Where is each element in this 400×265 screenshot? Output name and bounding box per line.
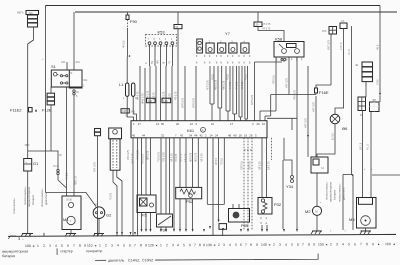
wire coil pin15 down — [133, 97, 136, 121]
svg-text:5: 5 — [291, 243, 293, 247]
wire vertical x74 bus to ignition switch S1 — [73, 12, 75, 70]
fuses F11E2 F12E — [10, 108, 52, 113]
svg-text:G1: G1 — [33, 161, 39, 166]
svg-text:ЧТЛ 0.75: ЧТЛ 0.75 — [293, 89, 296, 100]
svg-text:7: 7 — [134, 243, 136, 247]
svg-text:4: 4 — [285, 243, 287, 247]
ground bar M3 — [361, 230, 372, 232]
bus line 15 (second) — [75, 11, 397, 13]
ECU bottom pin numbers — [132, 133, 257, 137]
svg-text:+-: +- — [22, 238, 24, 241]
box c/b top right — [340, 20, 347, 29]
wire battery plus to starter bus — [28, 151, 58, 169]
svg-text:K61: K61 — [187, 128, 195, 133]
svg-text:СН 1.5: СН 1.5 — [340, 42, 343, 50]
svg-text:10: 10 — [190, 122, 194, 126]
svg-text:6: 6 — [129, 243, 131, 247]
ECU K61 — [131, 121, 267, 138]
svg-text:M1: M1 — [63, 217, 69, 222]
svg-text:28: 28 — [249, 133, 253, 137]
svg-text:24: 24 — [215, 133, 219, 137]
svg-text:3: 3 — [172, 243, 174, 247]
svg-text:ЖЧТ 0.75: ЖЧТ 0.75 — [131, 153, 134, 164]
svg-text:генератор: генератор — [86, 249, 102, 253]
svg-text:КЧТ 0.75: КЧТ 0.75 — [285, 78, 288, 88]
battery G1 — [24, 159, 39, 172]
svg-text:ЧТ 0.75: ЧТ 0.75 — [262, 28, 271, 31]
svg-text:ГЧЛ 0.75: ГЧЛ 0.75 — [157, 152, 160, 162]
svg-text:F16E: F16E — [319, 90, 329, 95]
svg-text:ЧН 0.5: ЧН 0.5 — [123, 40, 126, 48]
svg-text:ЧЛ 0.75: ЧЛ 0.75 — [200, 153, 203, 162]
svg-text:7: 7 — [245, 243, 247, 247]
wire from S box down — [330, 34, 332, 85]
pin rows under injectors — [196, 55, 251, 65]
svg-text:стартер: стартер — [60, 249, 73, 253]
svg-text:8: 8 — [199, 243, 201, 247]
svg-text:2: 2 — [105, 244, 107, 248]
svg-text:L1: L1 — [119, 82, 124, 87]
svg-text:43: 43 — [180, 133, 184, 137]
fuse holder stack top-left — [17, 11, 39, 28]
ground bar starter — [66, 233, 76, 235]
svg-text:S1: S1 — [51, 64, 57, 69]
wire stub x67 to S1 — [66, 62, 68, 70]
svg-text:ЖЛ 0.75: ЖЛ 0.75 — [189, 152, 192, 162]
svg-text:8: 8 — [366, 242, 368, 246]
svg-text:КЧТ 0.75: КЧТ 0.75 — [94, 162, 97, 172]
svg-text:ЧТ 0.75: ЧТ 0.75 — [262, 23, 271, 26]
svg-text:6: 6 — [297, 243, 299, 247]
svg-text:9: 9 — [256, 243, 258, 247]
relay K53 — [146, 30, 177, 46]
svg-text:ЧЖ 0.75: ЧЖ 0.75 — [222, 80, 225, 90]
long wire right from top — [379, 6, 381, 94]
P32 pins down — [261, 217, 268, 225]
svg-text:MEГA: MEГA — [17, 12, 24, 15]
svg-text:48: 48 — [228, 133, 232, 137]
svg-text:34: 34 — [189, 133, 193, 137]
svg-text:M2: M2 — [305, 209, 311, 214]
svg-text:ЭКР 0.5: ЭКР 0.5 — [240, 161, 243, 170]
wire labels injector bundle — [206, 79, 244, 90]
svg-text:ЧЛ 0.75: ЧЛ 0.75 — [258, 161, 261, 170]
svg-text:5: 5 — [235, 243, 237, 247]
svg-text:ГЛ 0.5: ГЛ 0.5 — [221, 158, 224, 165]
svg-text:100: 100 — [25, 244, 31, 248]
wire bus to box30 — [257, 12, 259, 22]
wire generator to ground — [98, 219, 100, 234]
current track ruler line — [8, 234, 396, 236]
svg-text:2: 2 — [43, 244, 45, 248]
svg-text:20: 20 — [176, 122, 180, 126]
svg-text:КЧТ 0.75: КЧТ 0.75 — [327, 40, 330, 50]
dashed screened cable wires — [244, 138, 252, 230]
svg-text:БРЛ 0.75: БРЛ 0.75 — [251, 94, 254, 105]
svg-text:A31: A31 — [76, 61, 81, 64]
svg-text:6: 6 — [354, 242, 356, 246]
svg-text:42: 42 — [200, 133, 204, 137]
wire S1 down to starter terminal 50 — [66, 87, 68, 196]
wire S1 to connector stack — [50, 87, 52, 93]
svg-text:6: 6 — [189, 243, 191, 247]
svg-text:10: 10 — [262, 122, 266, 126]
svg-text:4: 4 — [177, 243, 179, 247]
grid connector gb2 — [370, 99, 380, 112]
svg-text:26: 26 — [257, 122, 261, 126]
terminal triangles above ruler — [116, 226, 298, 235]
svg-text:44: 44 — [194, 133, 198, 137]
component P52 throttle pot — [176, 187, 202, 203]
svg-text:3: 3 — [336, 242, 338, 246]
long wire from bus right — [307, 66, 309, 150]
svg-text:8: 8 — [79, 244, 81, 248]
svg-text:30 50: 30 50 — [66, 199, 73, 202]
bus line 30 (top) — [46, 5, 381, 7]
svg-text:ЧБ 0.75: ЧБ 0.75 — [241, 81, 244, 90]
wires down to heater box — [363, 111, 372, 198]
ground bar generator — [94, 233, 104, 235]
svg-text:ЧН 2.5: ЧН 2.5 — [66, 172, 69, 180]
wire to generator B+ — [46, 193, 97, 207]
svg-text:45: 45 — [132, 133, 136, 137]
svg-text:полоса массы -: полоса массы - — [326, 181, 329, 200]
svg-text:ЧБ 5: ЧБ 5 — [376, 44, 379, 50]
side horizontal wires — [343, 174, 400, 177]
svg-text:III: III — [360, 114, 362, 117]
svg-text:M: M — [315, 210, 317, 214]
svg-text:Y7: Y7 — [225, 31, 231, 36]
wire box31 to bus — [177, 12, 179, 25]
injector wire bundle with merges — [210, 66, 248, 119]
track number row — [25, 242, 395, 248]
svg-text:P35: P35 — [241, 223, 249, 228]
svg-text:4: 4 — [55, 244, 57, 248]
svg-text:ГЧ: ГЧ — [169, 61, 172, 64]
svg-text:X13: X13 — [122, 109, 127, 113]
box 31 above K53 — [174, 25, 182, 29]
svg-text:7: 7 — [73, 244, 75, 248]
wire F16E down to relay box — [315, 97, 317, 157]
wire from fuse stack down to battery — [28, 27, 34, 159]
svg-text:5: 5 — [123, 243, 125, 247]
svg-text:1: 1 — [37, 244, 39, 248]
wire to fuse F16E — [316, 85, 331, 88]
svg-text:ЖЛ 0.75: ЖЛ 0.75 — [146, 150, 149, 160]
svg-text:полоса массы -: полоса массы - — [339, 183, 342, 202]
ignition lock body — [109, 128, 122, 170]
small connector boxes left of lock — [95, 129, 101, 132]
svg-text:Y34: Y34 — [286, 184, 294, 189]
svg-text:18: 18 — [239, 133, 243, 137]
wires below P34 — [161, 227, 166, 229]
wire connector down to ruler — [96, 136, 98, 236]
connector pair on K58 feed — [281, 58, 283, 60]
svg-text:БЧ 0.75: БЧ 0.75 — [136, 91, 139, 100]
svg-text:ЧТЛ 0.5: ЧТЛ 0.5 — [272, 75, 275, 84]
svg-text:140: 140 — [261, 243, 267, 247]
svg-text:батарея: батарея — [31, 194, 35, 205]
svg-text:полоса массы -: полоса массы - — [24, 186, 27, 205]
svg-text:8: 8 — [308, 243, 310, 247]
wire battery minus to ground point — [27, 171, 29, 234]
svg-text:6: 6 — [240, 243, 242, 247]
svg-text:9: 9 — [313, 243, 315, 247]
wires K58 down into ECU right — [255, 61, 285, 121]
svg-text:ЧК 0.75: ЧК 0.75 — [229, 81, 232, 90]
svg-text:1: 1 — [160, 243, 162, 247]
svg-text:батарея: батарея — [2, 254, 15, 258]
svg-text:8: 8 — [250, 243, 252, 247]
svg-text:40A: 40A — [29, 12, 34, 15]
svg-text:4Б 6: 4Б 6 — [25, 144, 31, 147]
svg-text:6: 6 — [67, 244, 69, 248]
svg-text:аккумуляторная: аккумуляторная — [2, 249, 28, 253]
svg-text:K53: K53 — [158, 30, 166, 35]
svg-text:F5: F5 — [142, 213, 147, 218]
K58 pin row — [276, 59, 303, 62]
svg-text:9: 9 — [372, 242, 374, 246]
svg-text:БЛ 0.75: БЛ 0.75 — [267, 161, 270, 170]
svg-text:32: 32 — [161, 133, 165, 137]
svg-text:точка массы: точка массы — [13, 198, 16, 214]
svg-text:ЧБЛ 1.5: ЧБЛ 1.5 — [75, 176, 78, 185]
connector pair on starter feed — [57, 169, 59, 171]
svg-text:ЧТЛ 0.75: ЧТЛ 0.75 — [141, 153, 144, 164]
svg-text:2: 2 — [330, 242, 332, 246]
ground point symbol bottom left — [9, 236, 17, 239]
svg-text:ЧГЛ 0.75: ЧГЛ 0.75 — [206, 80, 209, 90]
svg-text:A31: A31 — [61, 61, 66, 64]
svg-text:Ɵ6: Ɵ6 — [342, 126, 348, 131]
svg-text:3: 3 — [111, 244, 113, 248]
svg-text:ЗЧБ: ЗЧБ — [131, 111, 136, 114]
svg-text:146: 146 — [148, 99, 153, 103]
svg-text:батарея: батарея — [333, 189, 337, 200]
svg-text:Ч 1.5: Ч 1.5 — [348, 49, 351, 55]
svg-text:КЧБ 0.75: КЧБ 0.75 — [127, 149, 130, 160]
ECU top pin numbers — [133, 122, 266, 126]
svg-text:4: 4 — [117, 244, 119, 248]
svg-text:ЧТ 0.75: ЧТ 0.75 — [174, 91, 177, 100]
wire F90 down to coil — [126, 28, 128, 83]
svg-text:9: 9 — [145, 243, 147, 247]
svg-text:ГЛ 0.75: ГЛ 0.75 — [175, 153, 178, 162]
svg-text:1: 1 — [99, 244, 101, 248]
svg-text:Ч 0.75: Ч 0.75 — [110, 192, 113, 200]
section label battery — [2, 247, 318, 263]
svg-text:ЭКР 0.5: ЭКР 0.5 — [248, 161, 251, 170]
svg-text:F11E2: F11E2 — [10, 108, 22, 113]
svg-text:полоса массы -: полоса массы - — [41, 188, 44, 207]
svg-text:16 4: 16 4 — [53, 165, 58, 168]
motor M2 — [305, 206, 322, 215]
svg-text:17: 17 — [230, 122, 234, 126]
wire stack down — [365, 82, 367, 97]
wires lock to bottom tracks — [113, 170, 117, 236]
wire connector to starter — [73, 95, 75, 197]
wire labels above ECU left — [136, 90, 195, 108]
svg-text:14: 14 — [210, 133, 214, 137]
wire jog right of P52 — [207, 203, 224, 205]
starter M1 — [62, 196, 81, 230]
svg-text:120: 120 — [148, 243, 154, 247]
svg-text:-: - — [26, 168, 27, 171]
wire from c/b box down — [335, 29, 344, 115]
svg-text:5: 5 — [61, 244, 63, 248]
svg-text:16: 16 — [211, 122, 215, 126]
svg-text:3: 3 — [279, 243, 281, 247]
svg-text:K58: K58 — [275, 37, 283, 42]
svg-text:F90: F90 — [130, 19, 138, 24]
fuse F90 — [126, 12, 138, 28]
svg-text:2: 2 — [273, 243, 275, 247]
connector stack right — [355, 62, 373, 82]
wires below ECU going down — [133, 138, 138, 236]
svg-text:1НЗ: 1НЗ — [322, 30, 327, 33]
svg-text:4: 4 — [342, 242, 344, 246]
svg-text:19: 19 — [244, 133, 248, 137]
svg-text:Ч 0.5: Ч 0.5 — [226, 74, 229, 80]
svg-text:5: 5 — [183, 243, 185, 247]
small tag boxes on wires — [147, 98, 156, 103]
svg-text:7: 7 — [360, 242, 362, 246]
component F5 (crank sensor) — [137, 195, 156, 218]
component P35 temp sensor — [229, 209, 250, 229]
wire labels below ECU left — [127, 149, 204, 164]
svg-text:КЧЛ 0.75: КЧЛ 0.75 — [136, 149, 139, 160]
warning lamp — [330, 114, 348, 131]
svg-text:КЛ 0.5: КЛ 0.5 — [215, 157, 218, 165]
svg-text:61 0.5: 61 0.5 — [331, 133, 334, 140]
svg-text:7: 7 — [194, 243, 196, 247]
svg-text:ЧЕ: ЧЕ — [355, 64, 359, 67]
section label engine — [95, 259, 106, 261]
wire starter to ground — [70, 230, 72, 234]
wire lamp down — [317, 124, 335, 157]
svg-text:ЧБЛ 0.75: ЧБЛ 0.75 — [214, 79, 217, 90]
svg-text:130: 130 — [206, 243, 212, 247]
svg-text:КЧТ 0.75: КЧТ 0.75 — [312, 102, 315, 112]
svg-text:▲: ▲ — [34, 108, 38, 113]
svg-text:4: 4 — [229, 243, 231, 247]
svg-text:M3: M3 — [349, 217, 355, 222]
small connector box below triangle — [219, 224, 227, 230]
svg-text:С/ЧБ: С/ЧБ — [376, 79, 379, 85]
svg-text:F12E: F12E — [42, 108, 52, 113]
wires K53 contacts down — [150, 45, 173, 66]
component P34 (sensor) — [157, 214, 173, 233]
svg-text:2: 2 — [218, 243, 220, 247]
ignition switch S1 — [51, 64, 88, 88]
relay box right bottom — [311, 157, 328, 173]
svg-text:9: 9 — [84, 244, 86, 248]
svg-text:КЛ 0.75: КЛ 0.75 — [179, 153, 182, 162]
wire coil to ECU pin1 — [127, 97, 133, 121]
svg-text:БРЛ 0.75: БРЛ 0.75 — [181, 97, 184, 108]
svg-text:БЛ 0.75: БЛ 0.75 — [184, 153, 187, 162]
ignition coil L1 — [119, 82, 138, 100]
svg-text:Ч 1.5: Ч 1.5 — [366, 144, 369, 150]
feed box 30 small — [254, 22, 262, 27]
svg-text:БРЛ 0.75: БРЛ 0.75 — [192, 97, 195, 108]
svg-text:G2: G2 — [106, 213, 112, 218]
svg-text:P32: P32 — [274, 202, 282, 207]
ground bar battery — [22, 233, 33, 235]
svg-text:БЧ: БЧ — [151, 61, 154, 64]
svg-text:27: 27 — [138, 122, 142, 126]
svg-text:134: 134 — [163, 99, 168, 103]
svg-text:5: 5 — [348, 242, 350, 246]
relay K58 — [274, 37, 304, 58]
connector Y34 — [286, 176, 294, 190]
svg-text:ЖЧК 0.75: ЖЧК 0.75 — [141, 93, 144, 104]
svg-text:9: 9 — [203, 243, 205, 247]
wires into P32 — [262, 138, 267, 198]
wires into P35 — [233, 204, 239, 209]
svg-text:двигатель: двигатель — [45, 192, 48, 205]
svg-text:44: 44 — [142, 133, 146, 137]
connector pair 30 below S1 — [73, 90, 75, 92]
svg-text:8: 8 — [140, 243, 142, 247]
wire bundle K53/coil area down to ECU — [140, 66, 196, 121]
svg-text:аккумуляторная: аккумуляторная — [330, 181, 333, 202]
wire stack down through fuse area — [50, 105, 52, 151]
component P32 — [258, 198, 282, 215]
heater component box M3 — [349, 198, 376, 229]
svg-text:C16NZ: C16NZ — [142, 258, 154, 262]
svg-text:ЖЛ 0.75: ЖЛ 0.75 — [194, 152, 197, 162]
svg-text:ЧГ 0.75: ЧГ 0.75 — [235, 81, 238, 90]
svg-text:X21: X21 — [83, 79, 88, 82]
fuse F16E — [315, 88, 329, 97]
svg-text:A: A — [202, 128, 204, 132]
wires below F5 to ground — [142, 213, 151, 230]
svg-text:49: 49 — [233, 133, 237, 137]
svg-text:110: 110 — [87, 244, 93, 248]
svg-text:КЧТ 0.75: КЧТ 0.75 — [304, 118, 307, 128]
svg-text:C14NZ,: C14NZ, — [128, 258, 140, 262]
svg-text:ЧЛ 0.75: ЧЛ 0.75 — [170, 153, 173, 162]
wire vertical x46 from bus to generator area — [45, 6, 47, 193]
svg-text:160: 160 — [385, 242, 391, 246]
connector stack below S1 — [47, 93, 54, 105]
ground triangles track area — [141, 220, 220, 233]
injector block Y7 — [197, 31, 249, 53]
wire to M2 — [316, 173, 318, 206]
svg-text:аккумуляторная: аккумуляторная — [28, 186, 31, 207]
svg-text:M: M — [70, 72, 72, 75]
long wire x351 right side — [351, 26, 353, 175]
svg-text:БЛ 1.5: БЛ 1.5 — [359, 142, 362, 150]
svg-text:13: 13 — [156, 122, 160, 126]
svg-text:ГЛБ 0.75: ГЛБ 0.75 — [162, 152, 165, 162]
wires box30 to K58 — [258, 27, 284, 42]
svg-text:50: 50 — [161, 122, 165, 126]
svg-text:2: 2 — [166, 243, 168, 247]
svg-text:7: 7 — [302, 243, 304, 247]
svg-text:двигатель: двигатель — [108, 259, 124, 263]
generator G2 — [93, 204, 112, 219]
grid connector gb1 — [358, 97, 366, 111]
svg-text:3: 3 — [49, 244, 51, 248]
ground bar M2 — [312, 230, 322, 232]
svg-text:3: 3 — [223, 243, 225, 247]
svg-text:ЖЧ: ЖЧ — [157, 60, 160, 64]
wires below P52 — [180, 199, 193, 229]
svg-text:двигатель: двигатель — [343, 187, 346, 200]
connector grid box top right S — [322, 27, 337, 35]
